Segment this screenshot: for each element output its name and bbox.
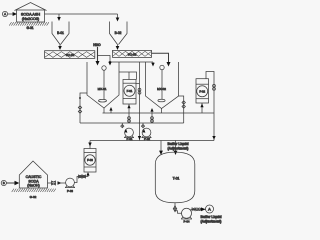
valve on discharge 2 <box>83 175 86 178</box>
valve circles on riser <box>151 117 154 120</box>
wire MX-01 bottom outlet <box>103 108 105 113</box>
svg-text:F-03: F-03 <box>87 158 93 162</box>
svg-text:P-04: P-04 <box>184 220 190 224</box>
wire caustic outlet <box>48 182 53 184</box>
svg-text:G-02: G-02 <box>30 195 37 199</box>
caustic inlet circle <box>1 180 15 185</box>
mixing tank MX-01 <box>87 62 119 108</box>
wire MX-02 bottom outlet <box>161 109 163 114</box>
svg-text:(Adjustment): (Adjustment) <box>168 146 189 150</box>
svg-text:H2O: H2O <box>93 43 101 47</box>
svg-text:T-01: T-01 <box>173 177 180 181</box>
valve pair on MX-01 drain <box>78 106 81 113</box>
wire F-02 bottom line with up arrow <box>201 103 203 113</box>
wire F-02 top elbow to right vertical <box>206 72 214 141</box>
valve on tank outlet <box>173 206 176 212</box>
wire B-02 discharge <box>117 45 119 47</box>
pump P-03 <box>65 178 75 188</box>
impeller MX-01 <box>99 99 107 102</box>
wire top header <box>45 13 118 15</box>
svg-text:SC-02: SC-02 <box>128 53 137 57</box>
wire T-01 bottom outlet <box>175 203 182 214</box>
svg-text:MX-01: MX-01 <box>98 87 107 91</box>
svg-text:B-01: B-01 <box>57 31 64 35</box>
valve circles on right vertical <box>213 84 216 87</box>
svg-text:B: B <box>3 181 5 185</box>
node A inlet circle top-left <box>2 11 13 16</box>
wire F-01 right connection <box>136 83 140 85</box>
agitator shaft MX-02 <box>161 70 163 100</box>
wire P-04 discharge <box>191 208 206 210</box>
wire riser with arrow toward MX-02 cone <box>151 109 153 123</box>
svg-text:SODA ASH: SODA ASH <box>21 12 40 16</box>
wire MX-02 right drain <box>179 96 184 123</box>
screw conveyor SC-02 <box>113 50 152 57</box>
wire arrow to pump P-03 <box>58 181 62 185</box>
wire SC-02 discharge to MX-02 <box>152 53 169 62</box>
agitator motor MX-02 <box>160 65 164 69</box>
svg-text:Buffer Liquid: Buffer Liquid <box>200 215 221 219</box>
valve on caustic line <box>52 181 56 185</box>
pump P-01 <box>121 123 134 138</box>
pump P-04 <box>181 208 192 219</box>
agitator motor MX-01 <box>102 66 106 70</box>
wire collector line A <box>103 112 215 114</box>
svg-text:A: A <box>208 207 211 212</box>
valve on discharge <box>192 208 195 211</box>
ground hatching under G-02 <box>12 189 56 192</box>
wire F-01 bottom line with up arrow <box>128 104 130 123</box>
wire F-03 top to header <box>89 141 91 149</box>
wire P-03 discharge <box>74 177 86 183</box>
valve circles on long vertical <box>138 88 141 91</box>
wire caustic inlet arrow <box>14 181 19 185</box>
wire H2O branch <box>98 56 154 63</box>
valve circles on F-01 drop <box>128 117 131 120</box>
wire branch arrow into MX-02 <box>152 62 154 64</box>
svg-text:G-01: G-01 <box>26 26 33 30</box>
buffer tank T-01 <box>155 152 195 203</box>
valve pair on MX-02 drain <box>182 101 185 108</box>
wire H2O down into MX-01 <box>97 47 99 62</box>
screw conveyor SC-01 <box>45 51 95 59</box>
caustic soda warehouse G-02 <box>19 161 47 188</box>
svg-text:(Na2CO3): (Na2CO3) <box>22 17 40 21</box>
wire B-01 discharge <box>59 45 61 48</box>
agitator shaft MX-01 <box>103 70 105 99</box>
wire branch arrow into MX-01 <box>108 62 111 66</box>
wire collector line B <box>80 122 184 124</box>
wire tank drop 1 <box>160 141 162 152</box>
junction <box>109 61 111 63</box>
svg-text:(NaOH): (NaOH) <box>27 184 39 188</box>
svg-text:SC-01: SC-01 <box>66 53 75 57</box>
svg-text:Buffer Liquid: Buffer Liquid <box>167 142 188 146</box>
wire drop to hopper B-02 <box>117 14 119 19</box>
svg-text:MX-02: MX-02 <box>157 87 166 91</box>
svg-text:F-02: F-02 <box>199 90 205 94</box>
wire MX-01 left drain <box>80 93 87 123</box>
valve circles on discharge <box>196 208 199 211</box>
wire arrow into node A <box>201 207 206 211</box>
pump P-02 <box>141 123 151 138</box>
wire inlet arrow into soda ash store <box>13 12 17 16</box>
wire drop to hopper B-01 <box>58 14 60 18</box>
hopper B-01 <box>52 22 69 45</box>
soda ash warehouse G-01 <box>15 3 47 23</box>
wire tank drop 2 <box>175 141 177 152</box>
svg-text:P-03: P-03 <box>67 189 73 193</box>
svg-text:F-01: F-01 <box>127 89 133 93</box>
mixing tank MX-02 <box>146 62 179 109</box>
ground hatching under G-01 <box>9 22 49 25</box>
filter F-03 <box>84 149 96 173</box>
svg-text:(Adjustment): (Adjustment) <box>201 219 222 223</box>
valve on discharge 1 <box>79 175 82 178</box>
wire MX-01 to F-01 feed <box>119 72 137 80</box>
svg-text:B-02: B-02 <box>115 31 122 35</box>
wire into F-03 bottom <box>86 174 88 177</box>
wire long vertical from water branch to header <box>139 62 141 141</box>
svg-text:A: A <box>4 12 6 16</box>
wire buffer header <box>90 140 214 142</box>
filter F-02 <box>196 79 209 103</box>
node A outlet circle <box>206 205 214 213</box>
impeller MX-02 <box>158 99 165 102</box>
filter F-01 <box>123 80 136 105</box>
wire riser with arrow toward MX-01 cone <box>110 108 112 113</box>
hopper B-02 <box>110 22 128 45</box>
